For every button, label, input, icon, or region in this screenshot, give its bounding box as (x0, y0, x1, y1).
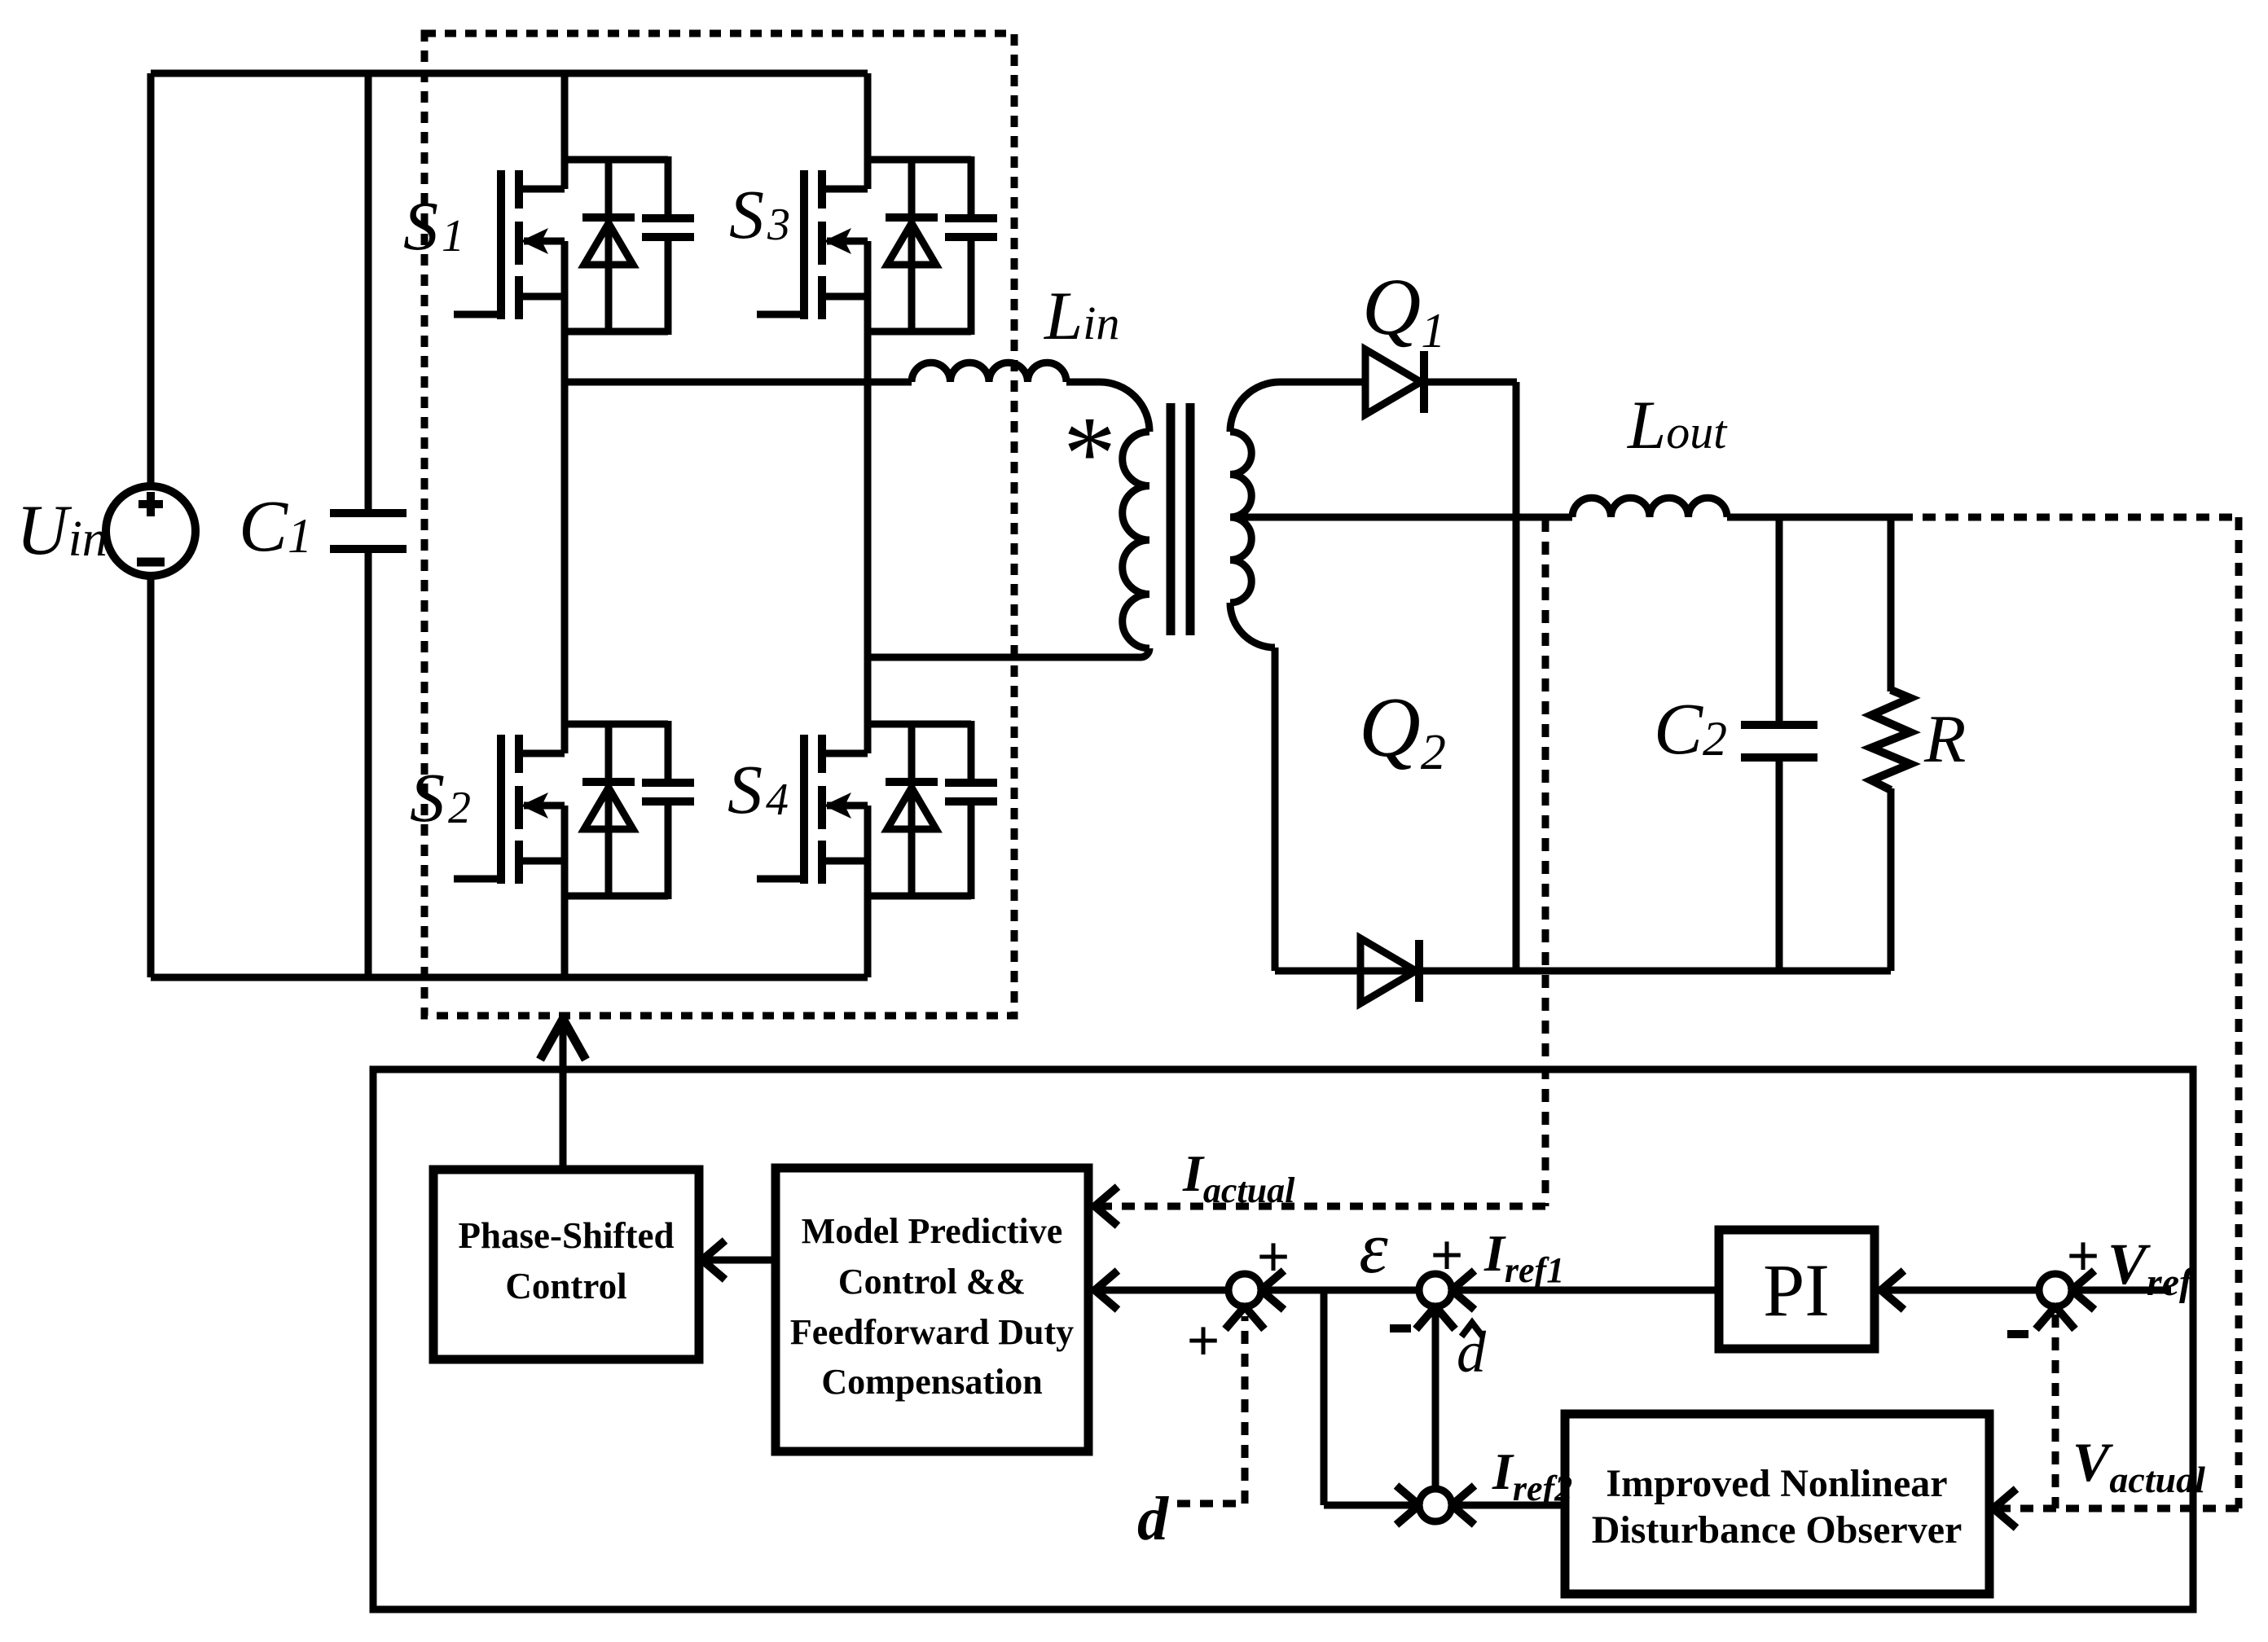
svg-text:Control &&: Control && (838, 1262, 1026, 1302)
svg-text:ε: ε (1359, 1208, 1388, 1289)
svg-text:Feedforward Duty: Feedforward Duty (790, 1312, 1074, 1352)
svg-text:d: d (1457, 1319, 1487, 1385)
svg-text:S: S (410, 758, 445, 836)
svg-text:+: + (1430, 1223, 1463, 1288)
svg-text:R: R (1923, 701, 1966, 777)
svg-text:PI: PI (1763, 1249, 1830, 1332)
svg-text:+: + (1186, 1308, 1220, 1373)
svg-text:+: + (1256, 1224, 1290, 1289)
svg-text:Control: Control (505, 1266, 626, 1306)
svg-text:S: S (403, 187, 438, 265)
svg-text:*: * (1063, 395, 1116, 512)
svg-text:Disturbance Observer: Disturbance Observer (1592, 1508, 1963, 1552)
svg-text:S: S (727, 750, 763, 828)
svg-text:2: 2 (448, 783, 471, 833)
svg-text:4: 4 (766, 775, 789, 825)
svg-text:3: 3 (767, 200, 790, 250)
svg-text:Phase-Shifted: Phase-Shifted (458, 1215, 674, 1256)
svg-text:d: d (1137, 1485, 1169, 1553)
svg-text:+: + (2066, 1223, 2099, 1289)
svg-text:Improved Nonlinear: Improved Nonlinear (1606, 1462, 1947, 1505)
svg-text:1: 1 (442, 211, 464, 261)
svg-text:S: S (729, 175, 764, 253)
svg-text:Model Predictive: Model Predictive (802, 1211, 1063, 1251)
svg-text:Compensation: Compensation (821, 1362, 1042, 1402)
